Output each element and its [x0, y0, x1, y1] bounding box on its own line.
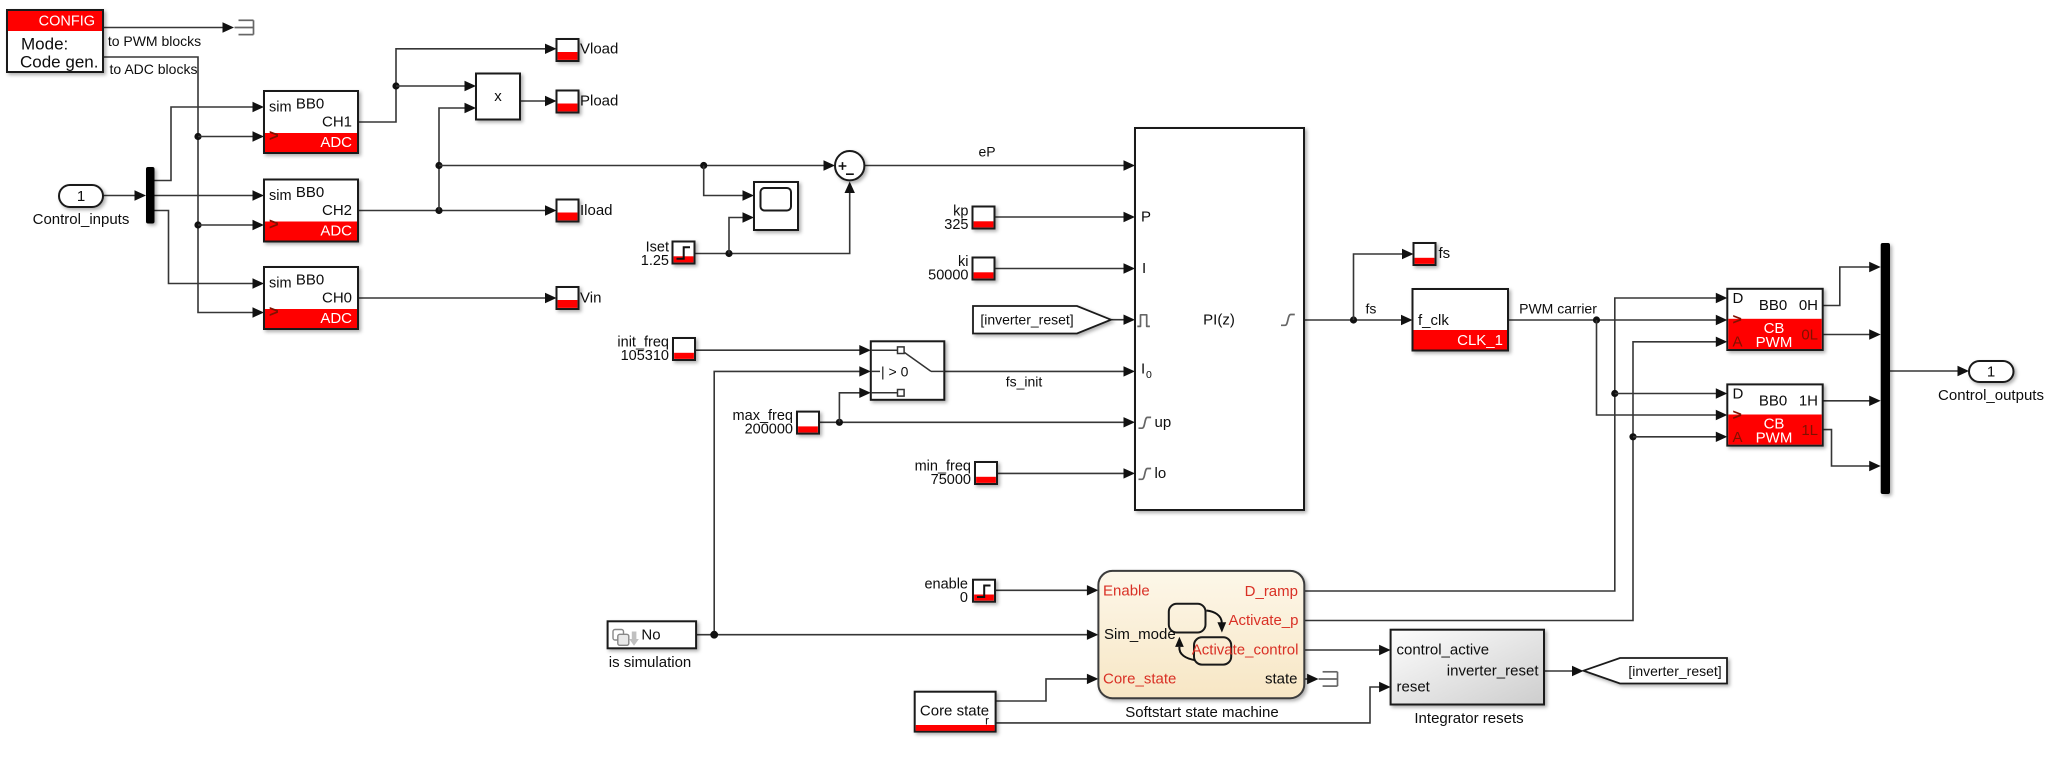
- svg-text:PI(z): PI(z): [1203, 312, 1235, 329]
- svg-text:D_ramp: D_ramp: [1245, 583, 1298, 600]
- svg-text:Core state: Core state: [920, 703, 989, 720]
- wire init_freq to switch in1: [695, 345, 871, 355]
- svg-text:Mode:: Mode:: [21, 35, 68, 54]
- svg-text:50000: 50000: [928, 268, 968, 284]
- svg-text:BB0: BB0: [296, 272, 324, 289]
- wire sum to PI eP input: [864, 160, 1135, 170]
- junction eP to scope: [700, 162, 754, 201]
- svg-text:75000: 75000: [931, 472, 971, 488]
- svg-text:Activate_control: Activate_control: [1192, 642, 1299, 659]
- wire PWM1 0H to mux: [1823, 262, 1881, 306]
- svg-text:200000: 200000: [745, 422, 793, 438]
- svg-text:fs: fs: [1439, 245, 1451, 262]
- junction Activate_p to PWM2 A: [1629, 432, 1727, 442]
- svg-text:[inverter_reset]: [inverter_reset]: [1628, 663, 1721, 679]
- svg-text:Control_inputs: Control_inputs: [33, 211, 130, 228]
- Goto tag inverter_reset: [1584, 658, 1728, 684]
- svg-text:inverter_reset: inverter_reset: [1447, 663, 1540, 680]
- svg-text:0: 0: [1146, 369, 1152, 381]
- svg-text:PWM carrier: PWM carrier: [1519, 301, 1597, 317]
- display Iload: [557, 200, 613, 222]
- ADC block CH1: [264, 91, 358, 153]
- svg-text:0H: 0H: [1799, 297, 1818, 314]
- block No (is simulation): [608, 621, 697, 671]
- svg-text:control_active: control_active: [1397, 642, 1490, 659]
- display Vin: [557, 287, 602, 309]
- transition arrow down: [1207, 611, 1222, 623]
- svg-text:P: P: [1141, 209, 1151, 226]
- wire No to chart Sim_mode: [696, 630, 1098, 640]
- svg-text:1: 1: [1987, 364, 1995, 381]
- svg-text:is simulation: is simulation: [609, 654, 692, 671]
- junction max_freq branch to switch in3: [836, 388, 871, 426]
- constant init_freq 105310: [617, 335, 695, 365]
- junction fs takeoff: [1350, 249, 1414, 324]
- svg-text:x: x: [494, 88, 502, 105]
- svg-text:eP: eP: [978, 144, 995, 160]
- wire CONFIG to ADC blocks (trunk): [103, 57, 264, 318]
- svg-text:Sim_mode: Sim_mode: [1104, 626, 1176, 643]
- product block x: [476, 74, 520, 120]
- svg-text:reset: reset: [1397, 679, 1431, 696]
- svg-text:>: >: [1733, 312, 1742, 329]
- constant ki 50000: [928, 254, 994, 284]
- wire max_freq to PI up: [819, 417, 1135, 427]
- display Pload: [557, 91, 619, 113]
- svg-text:Activate_p: Activate_p: [1228, 612, 1298, 629]
- inport 1 Control_inputs: [33, 185, 130, 228]
- wire CH0 to Vin: [358, 293, 557, 303]
- block Integrator resets: [1391, 630, 1544, 727]
- wire mux to outport: [1890, 366, 1969, 376]
- junction CH1 branch to product: [392, 81, 476, 91]
- block Core state: [915, 692, 996, 732]
- wire Core state r to Integrator reset input: [996, 682, 1391, 723]
- svg-text:to ADC blocks: to ADC blocks: [110, 61, 198, 77]
- svg-text:Enable: Enable: [1103, 583, 1150, 600]
- wire state to terminator: [1304, 674, 1318, 684]
- wire PWM2 1H to mux: [1823, 396, 1881, 406]
- wire demux out2 to ADC2 sim: [155, 190, 265, 200]
- svg-text:Vload: Vload: [580, 40, 618, 57]
- PWM block 0: [1727, 289, 1822, 351]
- outport 1 Control_outputs: [1938, 361, 2044, 404]
- svg-text:>: >: [269, 216, 279, 234]
- svg-text:to PWM blocks: to PWM blocks: [108, 33, 201, 49]
- junction eP takeoff: [435, 160, 835, 170]
- wire Iset to sum: [695, 182, 855, 254]
- svg-text:Iload: Iload: [580, 202, 613, 219]
- svg-text:CLK_1: CLK_1: [1457, 332, 1503, 349]
- svg-text:state: state: [1265, 671, 1298, 688]
- svg-text:CONFIG: CONFIG: [39, 14, 95, 30]
- svg-text:1H: 1H: [1799, 392, 1818, 409]
- sum block: [835, 151, 864, 180]
- junction CH2 vertical branch: [435, 103, 476, 214]
- wire CH2 to Iload: [358, 205, 557, 215]
- svg-text:f_clk: f_clk: [1418, 312, 1449, 329]
- block f_clk CLK_1: [1413, 289, 1509, 351]
- svg-text:0: 0: [960, 590, 968, 606]
- PWM block 1: [1727, 384, 1822, 446]
- svg-text:fs_init: fs_init: [1006, 374, 1043, 390]
- source Iset 1.25: [641, 240, 695, 270]
- terminator T1 (to PWM blocks): [235, 20, 254, 34]
- display Vload: [557, 39, 619, 61]
- junction Sim_mode: [710, 631, 718, 639]
- wire switch out fs_init to PI I0: [944, 366, 1135, 376]
- From tag inverter_reset: [973, 306, 1111, 334]
- svg-text:BB0: BB0: [296, 184, 324, 201]
- junction on ADC trunk at ADC1: [194, 131, 264, 141]
- svg-text:lo: lo: [1155, 465, 1167, 482]
- wire Integrator resets to Goto tag: [1544, 666, 1584, 676]
- block CONFIG: [7, 10, 103, 72]
- svg-text:ADC: ADC: [320, 134, 352, 151]
- svg-text:D: D: [1733, 290, 1744, 307]
- svg-text:Control_outputs: Control_outputs: [1938, 387, 2044, 404]
- svg-text:up: up: [1155, 414, 1172, 431]
- wire CONFIG to PWM terminator: [103, 22, 234, 32]
- wire D_ramp to PWM1 D: [1304, 293, 1727, 591]
- state box 2: [1194, 637, 1231, 664]
- svg-text:PWM: PWM: [1756, 334, 1793, 351]
- svg-text:Pload: Pload: [580, 93, 618, 110]
- svg-text:Code gen.: Code gen.: [20, 53, 98, 72]
- junction Iset to scope: [725, 212, 754, 257]
- svg-text:D: D: [1733, 386, 1744, 403]
- wire product to Pload: [520, 96, 557, 106]
- svg-text:1: 1: [77, 188, 85, 205]
- terminator T2 (state): [1319, 672, 1338, 686]
- svg-text:CH0: CH0: [322, 290, 352, 307]
- junction D_ramp to PWM2 D: [1611, 388, 1727, 398]
- svg-text:BB0: BB0: [1759, 297, 1787, 314]
- svg-text:A: A: [1733, 334, 1743, 351]
- ADC block CH0: [264, 267, 358, 329]
- svg-text:I: I: [1141, 361, 1145, 378]
- svg-text:105310: 105310: [621, 348, 669, 364]
- svg-text:1L: 1L: [1801, 422, 1818, 439]
- svg-text:I: I: [1142, 260, 1146, 277]
- svg-text:CH2: CH2: [322, 202, 352, 219]
- constant min_freq 75000: [915, 459, 997, 489]
- svg-text:CH1: CH1: [322, 114, 352, 131]
- constant max_freq 200000: [733, 408, 819, 437]
- wire ki to PI I: [995, 263, 1135, 273]
- svg-text:BB0: BB0: [296, 96, 324, 113]
- wire From tag to PI reset: [1111, 315, 1135, 325]
- junction on ADC trunk at ADC2: [194, 220, 264, 230]
- svg-text:325: 325: [944, 217, 968, 233]
- wire Core state to chart Core_state: [996, 674, 1099, 701]
- svg-text:ADC: ADC: [320, 223, 352, 240]
- wire CH1 to Vload: [358, 44, 557, 122]
- svg-text:Integrator resets: Integrator resets: [1414, 710, 1523, 727]
- svg-text:Vin: Vin: [580, 290, 601, 307]
- demux bar: [146, 167, 155, 224]
- wire PWM2 1L to mux: [1823, 430, 1881, 472]
- svg-text:PWM: PWM: [1756, 430, 1793, 447]
- svg-text:Softstart state machine: Softstart state machine: [1125, 704, 1278, 721]
- svg-text:sim: sim: [269, 100, 292, 116]
- ADC block CH2: [264, 180, 358, 242]
- svg-text:A: A: [1733, 429, 1743, 446]
- svg-text:[inverter_reset]: [inverter_reset]: [980, 312, 1073, 328]
- PI(z) block: [1135, 128, 1304, 510]
- wire f_clk out PWM carrier: [1508, 315, 1727, 325]
- svg-text:| > 0: | > 0: [881, 363, 909, 379]
- display fs: [1414, 243, 1451, 265]
- svg-text:>: >: [1733, 407, 1742, 424]
- svg-text:BB0: BB0: [1759, 392, 1787, 409]
- wire PWM1 0L to mux: [1823, 329, 1881, 339]
- svg-text:r: r: [985, 716, 989, 728]
- state box 1: [1169, 604, 1206, 633]
- wire inport to demux: [103, 190, 146, 200]
- svg-text:Core_state: Core_state: [1103, 671, 1176, 688]
- wire min_freq to PI lo: [997, 468, 1135, 478]
- svg-text:>: >: [269, 303, 279, 321]
- wire enable to chart Enable: [995, 585, 1099, 595]
- switch block > 0: [871, 341, 945, 400]
- svg-text:fs: fs: [1366, 301, 1377, 317]
- svg-text:>: >: [269, 127, 279, 145]
- svg-text:1.25: 1.25: [641, 253, 669, 269]
- wire Activate_control to Integrator resets: [1304, 645, 1390, 655]
- wire kp to PI P: [995, 212, 1135, 222]
- wire demux out3 to ADC3 sim: [155, 211, 265, 289]
- transition arrow up: [1179, 647, 1195, 660]
- mux bar: [1881, 243, 1890, 494]
- wire demux out1 to ADC1 sim: [155, 102, 265, 181]
- scope block: [754, 182, 798, 230]
- svg-text:0L: 0L: [1801, 327, 1818, 344]
- wire Activate_p to PWM1 A: [1304, 337, 1727, 621]
- Softstart state machine chart: [1098, 571, 1304, 721]
- constant kp 325: [944, 204, 994, 234]
- wire Sim_mode branch up to switch in2: [714, 366, 871, 635]
- wire PI out to f_clk: [1304, 315, 1413, 325]
- source enable 0: [924, 576, 995, 606]
- junction PWM carrier branch down: [1593, 316, 1727, 420]
- svg-text:ADC: ADC: [320, 310, 352, 327]
- svg-text:No: No: [641, 627, 660, 644]
- svg-text:sim: sim: [269, 276, 292, 292]
- svg-text:sim: sim: [269, 188, 292, 204]
